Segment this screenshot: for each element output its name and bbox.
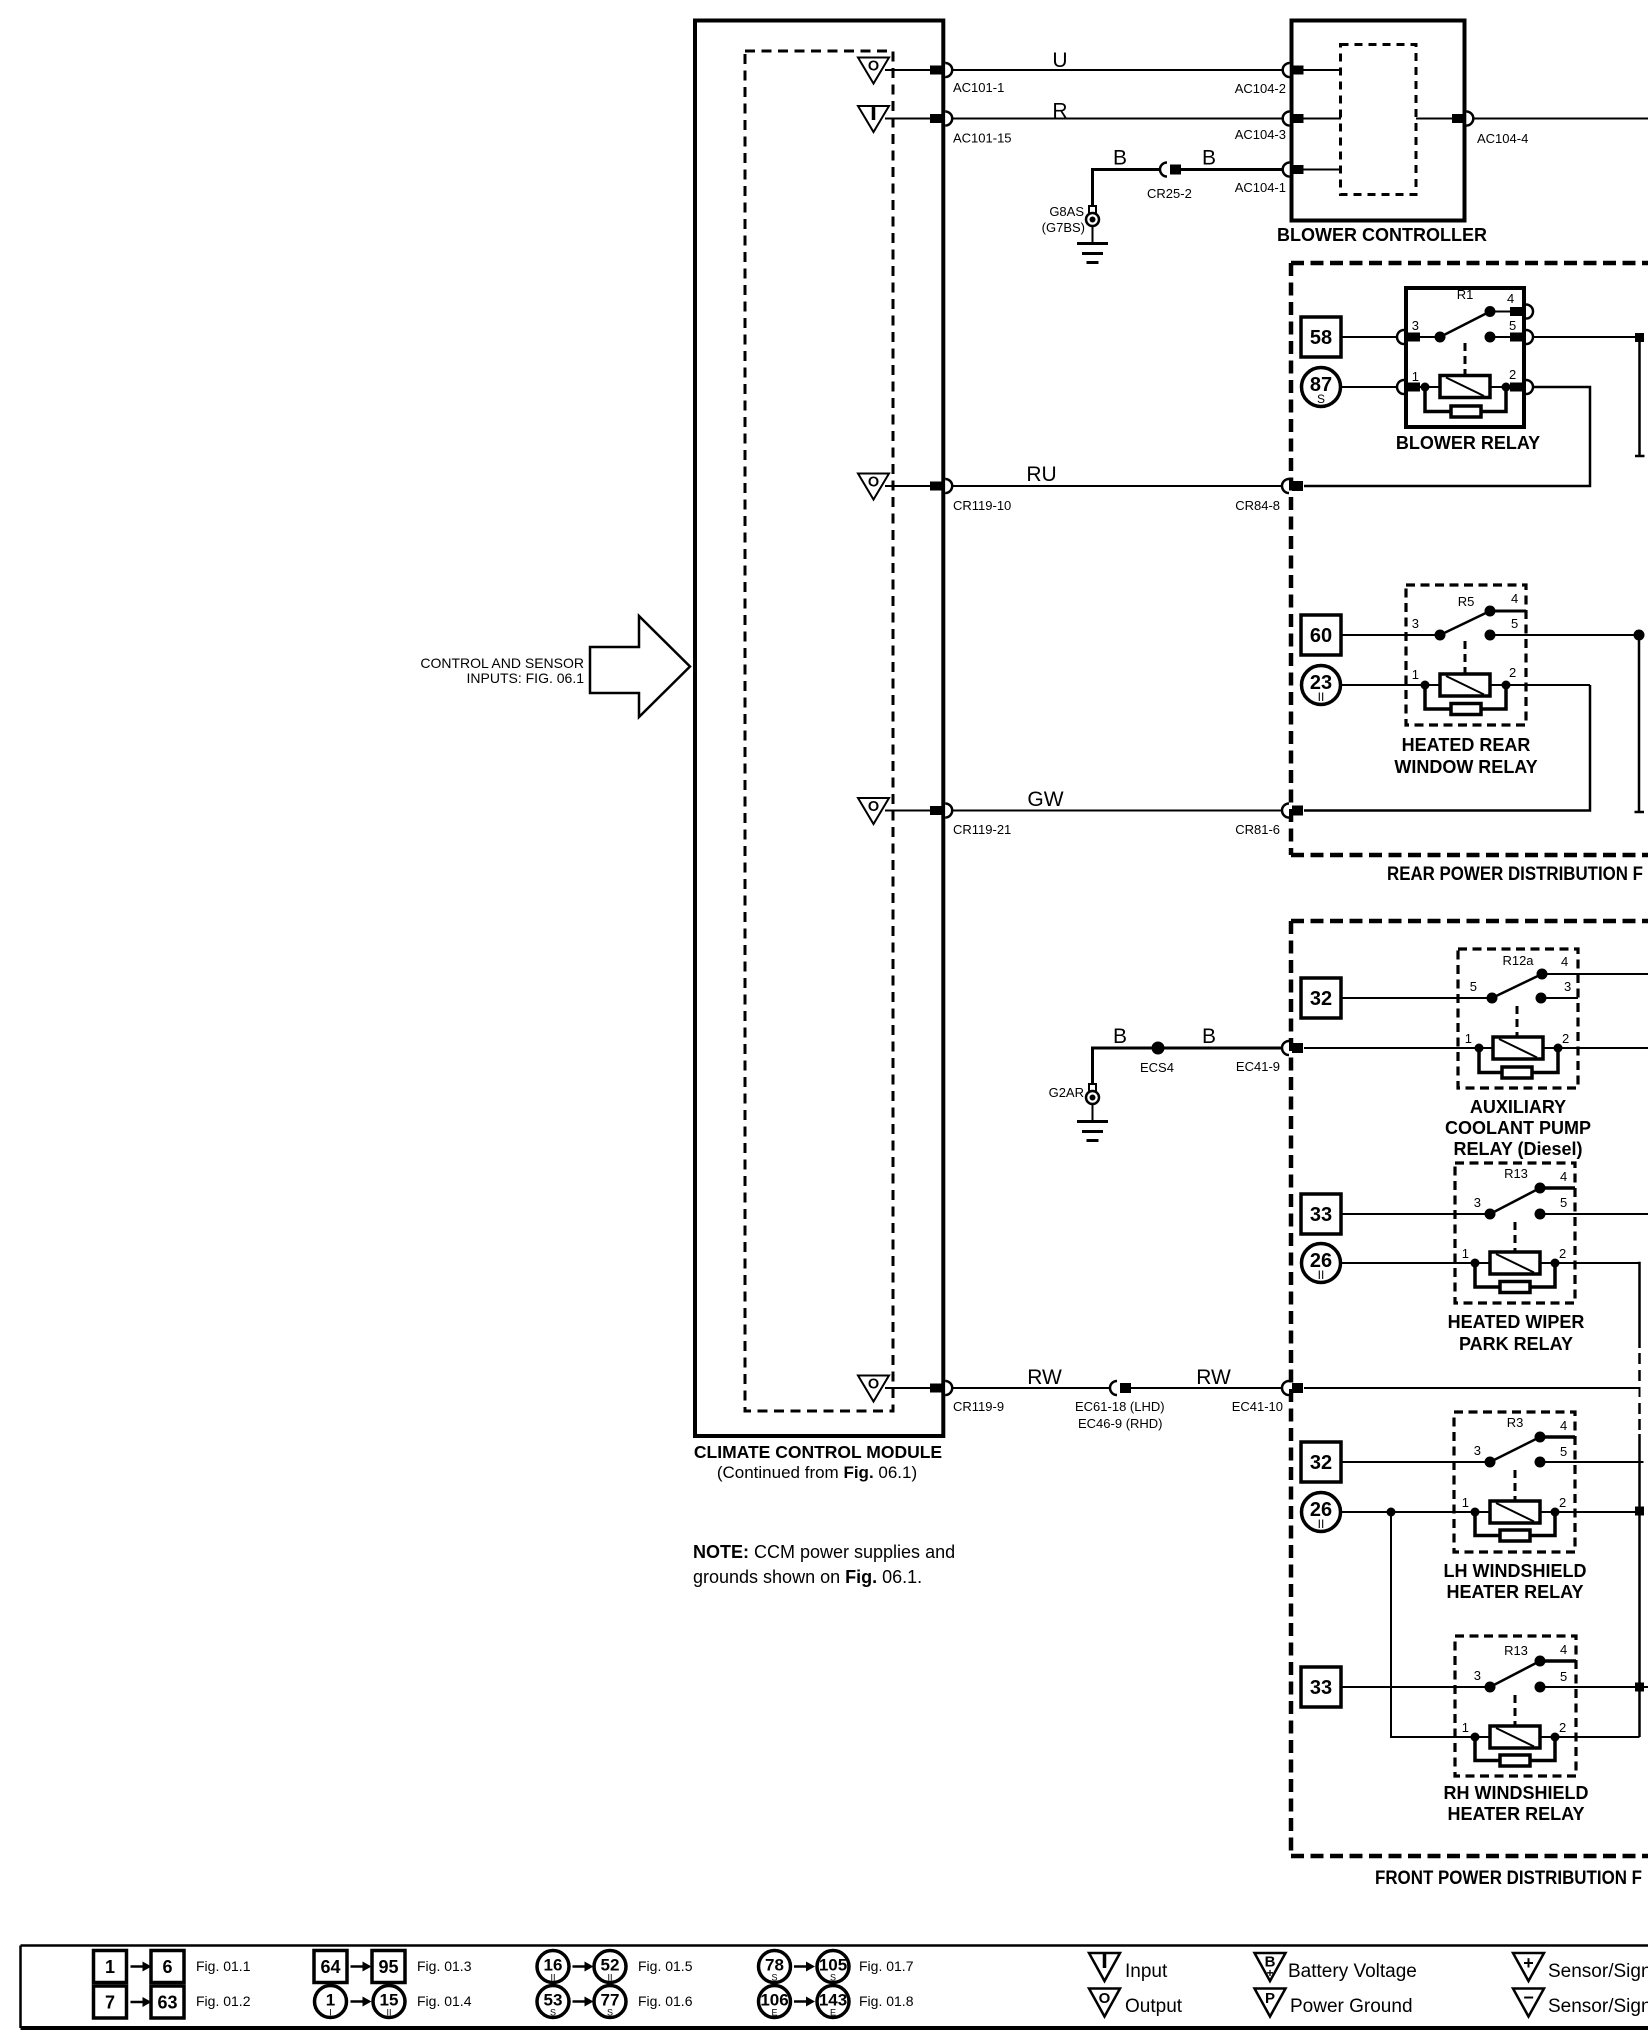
svg-text:3: 3 (1474, 1668, 1481, 1683)
relay R13 RH suppression resistor loop (1475, 1740, 1500, 1761)
relay R13 RH switch pivot (1485, 1682, 1496, 1693)
svg-text:RELAY (Diesel): RELAY (Diesel) (1453, 1139, 1582, 1159)
svg-text:RU: RU (1026, 463, 1056, 486)
svg-text:COOLANT PUMP: COOLANT PUMP (1445, 1118, 1591, 1138)
relay R13 RH switch blade (1490, 1661, 1540, 1687)
splice dot on 26 wire (1387, 1508, 1396, 1517)
wire GW (CR119-21 to CR81-6) (952, 810, 1282, 812)
relay R1 switch blade (1440, 312, 1490, 338)
connector CR119-9 bump (945, 1381, 952, 1395)
svg-text:2: 2 (1509, 367, 1516, 382)
svg-text:AC104-1: AC104-1 (1235, 180, 1286, 195)
relay R1 pin5 wire (1495, 336, 1512, 338)
wire splice 26 down to RH coil (1391, 1512, 1490, 1737)
wire fuse 33 to relay R13 RH pin3 (1341, 1686, 1488, 1688)
bus dashed section (1638, 1353, 1641, 1364)
relay R12a coil (1493, 1037, 1543, 1059)
svg-text:2: 2 (1559, 1495, 1566, 1510)
wire AC104-3 internal (1303, 118, 1341, 120)
svg-text:Power Ground: Power Ground (1290, 1996, 1413, 2017)
wire CR119-21 to CCM edge (885, 810, 931, 812)
svg-text:R13: R13 (1504, 1643, 1528, 1658)
relay R1 blower relay box (1406, 288, 1524, 427)
relay R3 pin5 dot (1535, 1457, 1546, 1468)
svg-text:3: 3 (1412, 616, 1419, 631)
terminal end tick R1 (1635, 455, 1645, 458)
svg-text:BLOWER RELAY: BLOWER RELAY (1396, 433, 1540, 453)
svg-text:U: U (1052, 49, 1067, 72)
relay R12a switch blade (1492, 974, 1542, 998)
svg-text:CR81-6: CR81-6 (1235, 822, 1280, 837)
svg-text:CONTROL AND SENSOR: CONTROL AND SENSOR (420, 655, 584, 671)
relay R5 pin5 wire (1495, 634, 1639, 636)
relay R1 switch throw dot pin4 (1485, 306, 1496, 317)
svg-text:R5: R5 (1458, 594, 1475, 609)
svg-text:Fig. 01.6: Fig. 01.6 (638, 1993, 693, 2009)
svg-text:4: 4 (1560, 1642, 1567, 1657)
relay R1 pin1 junction (1421, 383, 1430, 392)
relay R13 RH coil to pin2 wire (1540, 1736, 1640, 1738)
relay R5 suppression resistor loop (1425, 688, 1451, 709)
svg-text:B: B (1202, 1025, 1216, 1048)
svg-text:4: 4 (1560, 1418, 1567, 1433)
svg-text:NOTE: CCM power supplies and: NOTE: CCM power supplies and (693, 1542, 955, 1562)
relay R13 wiper coil dashed stub (1514, 1222, 1517, 1251)
relay R13 wiper switch pivot (1485, 1209, 1496, 1220)
connector EC41-10 (1282, 1381, 1289, 1395)
wire RU (CR119-10 to CR84-8) (952, 485, 1282, 487)
relay R12a coil dashed stub (1516, 1006, 1519, 1036)
relay R1 switch pivot (1435, 332, 1446, 343)
svg-text:AC104-2: AC104-2 (1235, 81, 1286, 96)
relay R5 pin4 wire (1490, 610, 1526, 613)
relay R1 coil dashed stub (1464, 343, 1467, 374)
fuse 33 box RH windshield (1301, 1667, 1341, 1707)
wire B from ECS4 to EC41-9 (1164, 1047, 1282, 1050)
wire B from G2AR corner to ECS4 (1093, 1048, 1153, 1084)
legend input symbol (1089, 1953, 1120, 1981)
output symbol O at CR119-10 (858, 474, 889, 500)
relay R13 wiper switch blade (1490, 1188, 1540, 1214)
wire AC104-4 external (1474, 118, 1648, 120)
svg-text:5: 5 (1511, 616, 1518, 631)
wire circle 26 to relay R13 coil (1341, 1262, 1490, 1264)
svg-text:Fig. 01.2: Fig. 01.2 (196, 1993, 251, 2009)
relay R5 pin5 dot (1485, 630, 1496, 641)
svg-text:3: 3 (1474, 1443, 1481, 1458)
svg-text:Fig. 01.5: Fig. 01.5 (638, 1958, 693, 1974)
svg-text:Fig. 01.7: Fig. 01.7 (859, 1958, 914, 1974)
svg-text:INPUTS: FIG. 06.1: INPUTS: FIG. 06.1 (467, 670, 585, 686)
wire fuse 58 to relay R1 pin3 (1341, 336, 1406, 338)
wire RW inside front PDB (1304, 1388, 1640, 1397)
svg-text:1: 1 (1462, 1720, 1469, 1735)
legend circles 53 to 77 Fig 01.6 (537, 1986, 569, 2018)
wire R5 pin2 return to CR81-6 (1304, 685, 1590, 811)
relay R12a suppression resistor loop (1479, 1051, 1502, 1073)
connector CR119-10 bump (945, 479, 952, 493)
svg-text:3: 3 (1412, 318, 1419, 333)
wire RW (EC61-18 to EC41-10) (1130, 1387, 1282, 1389)
connector circle 26 II LH windshield (1302, 1493, 1341, 1532)
legend output symbol (1089, 1989, 1120, 2017)
wire circle 87 to relay R1 pin1 (1341, 386, 1406, 388)
svg-text:AC104-4: AC104-4 (1477, 131, 1528, 146)
relay R1 pin4 wire (1490, 311, 1512, 313)
splice CR25-2 (1160, 163, 1167, 177)
relay R12a switch pivot pin5 (1487, 993, 1498, 1004)
relay R13 wiper pin2 junction (1551, 1259, 1560, 1268)
svg-text:HEATER RELAY: HEATER RELAY (1447, 1804, 1584, 1824)
wire AC101-15 to CCM edge (885, 118, 931, 120)
relay R1 suppression resistor loop (1425, 390, 1451, 412)
connector EC41-9 (1282, 1041, 1289, 1055)
svg-text:II: II (1318, 1517, 1325, 1531)
legend squares 1 to 6 Fig 01.1 (94, 1951, 127, 1983)
svg-text:Battery Voltage: Battery Voltage (1288, 1961, 1417, 1982)
svg-text:HEATED REAR: HEATED REAR (1402, 735, 1531, 755)
ground G8AS (1089, 206, 1096, 214)
relay R12a pin4 wire (1542, 973, 1648, 975)
svg-text:AC101-15: AC101-15 (953, 131, 1012, 146)
wire R (AC101-15 to AC104-3) (952, 118, 1283, 120)
svg-text:4: 4 (1561, 954, 1568, 969)
relay R13 RH pin5 wire (1545, 1686, 1648, 1688)
svg-text:4: 4 (1511, 591, 1518, 606)
svg-text:Sensor/Signal: Sensor/Signal (1548, 1996, 1648, 2017)
svg-text:Fig. 01.1: Fig. 01.1 (196, 1958, 251, 1974)
relay R3 switch blade (1490, 1437, 1540, 1462)
svg-text:LH WINDSHIELD: LH WINDSHIELD (1444, 1561, 1587, 1581)
legend power ground symbol (1255, 1989, 1286, 2017)
relay R5 pin1 junction (1421, 681, 1430, 690)
svg-text:CR84-8: CR84-8 (1235, 498, 1280, 513)
svg-text:AC104-3: AC104-3 (1235, 127, 1286, 142)
relay R1 coil (1440, 376, 1490, 398)
svg-text:B: B (1113, 147, 1127, 170)
wire R1 pin2 return to CR84-8 (1304, 387, 1590, 486)
wire AC104-4 internal (1416, 118, 1453, 120)
wire RW (CR119-9 to EC61-18) (952, 1387, 1111, 1389)
wire fuse 32 to relay R3 pin3 (1341, 1461, 1488, 1463)
relay R13 heated wiper park relay box (1455, 1163, 1575, 1303)
wire CR119-10 to CCM edge (885, 485, 931, 487)
arrow control and sensor inputs (590, 616, 690, 717)
connector CR84-8 (1282, 479, 1289, 493)
svg-text:Fig. 01.8: Fig. 01.8 (859, 1993, 914, 2009)
legend squares 7 to 63 Fig 01.2 (94, 1986, 127, 2018)
svg-text:2: 2 (1559, 1246, 1566, 1261)
relay R5 coil (1440, 674, 1490, 696)
wire B from CR25-2 to AC104-1 (1180, 168, 1283, 171)
svg-text:RW: RW (1027, 1366, 1062, 1389)
relay R3 switch pivot (1485, 1457, 1496, 1468)
svg-text:7: 7 (105, 1993, 115, 2013)
svg-text:CR25-2: CR25-2 (1147, 186, 1192, 201)
svg-text:O: O (1099, 1990, 1111, 2007)
relay R3 pin5 wire (1545, 1461, 1644, 1463)
relay R13 wiper coil to pin2 wire (1540, 1262, 1638, 1264)
fuse 33 box heated wiper (1301, 1194, 1341, 1234)
svg-text:REAR POWER DISTRIBUTION F: REAR POWER DISTRIBUTION F (1387, 864, 1643, 885)
connector circle 23 II (1302, 666, 1341, 705)
svg-text:G8AS: G8AS (1049, 204, 1084, 219)
svg-text:EC46-9 (RHD): EC46-9 (RHD) (1078, 1416, 1163, 1431)
svg-text:S: S (550, 2008, 556, 2018)
svg-text:S: S (771, 1973, 777, 1983)
legend bar frame (21, 1944, 1648, 1947)
svg-text:AC101-1: AC101-1 (953, 80, 1004, 95)
svg-text:63: 63 (157, 1993, 177, 2013)
svg-text:3: 3 (1474, 1195, 1481, 1210)
legend battery voltage symbol (1255, 1953, 1286, 1981)
wire R5 pin5 branch vertical (1638, 635, 1641, 812)
wire U (AC101-1 to AC104-2) (952, 69, 1283, 71)
svg-text:P: P (1265, 1990, 1275, 2007)
svg-text:FRONT POWER DISTRIBUTION F: FRONT POWER DISTRIBUTION F (1375, 1868, 1642, 1889)
connector AC101-1 bump (945, 63, 952, 77)
wire AC104-2 internal (1303, 69, 1341, 71)
relay R12a pin3 dot (1536, 993, 1547, 1004)
relay R13 wiper coil (1490, 1252, 1540, 1274)
relay R1 pin3 wire to pivot (1419, 336, 1440, 338)
svg-text:3: 3 (1564, 979, 1571, 994)
svg-text:EC41-9: EC41-9 (1236, 1059, 1280, 1074)
output symbol O at AC101-1 (858, 58, 889, 84)
relay R1 pin5 dot (1485, 332, 1496, 343)
connector AC104-4 bump (1466, 112, 1473, 126)
wire EC41-9 to relay R12a coil (1304, 1047, 1493, 1049)
junction dot at R5 pin5 branch (1634, 630, 1645, 641)
svg-text:S: S (830, 1973, 836, 1983)
svg-text:HEATER RELAY: HEATER RELAY (1446, 1582, 1583, 1602)
fuse 32 box LH windshield (1301, 1442, 1341, 1482)
svg-text:1: 1 (1465, 1031, 1472, 1046)
relay R13 RH pin5 dot (1535, 1682, 1546, 1693)
svg-text:(Continued from Fig. 06.1): (Continued from Fig. 06.1) (717, 1463, 917, 1482)
svg-text:58: 58 (1310, 327, 1332, 349)
svg-text:1: 1 (1462, 1246, 1469, 1261)
output symbol O at CR119-21 (858, 798, 889, 824)
relay R3 coil dashed stub (1514, 1470, 1517, 1500)
relay R5 coil dashed stub (1464, 641, 1467, 673)
svg-text:5: 5 (1560, 1669, 1567, 1684)
svg-text:II: II (1318, 1268, 1325, 1282)
front power distribution box dashed border (1291, 919, 1648, 924)
relay R13 wiper suppression resistor loop (1475, 1266, 1500, 1287)
svg-text:2: 2 (1559, 1720, 1566, 1735)
svg-text:CLIMATE CONTROL MODULE: CLIMATE CONTROL MODULE (694, 1442, 942, 1462)
blower controller box (1292, 21, 1465, 221)
svg-text:EC41-10: EC41-10 (1232, 1399, 1283, 1414)
svg-text:4: 4 (1560, 1169, 1567, 1184)
connector AC104-1 bump (1283, 163, 1290, 177)
relay R1 pin4 bump (1526, 305, 1533, 319)
svg-text:60: 60 (1310, 625, 1332, 647)
relay R13 RH coil (1490, 1726, 1540, 1748)
relay R13 wiper pin5 wire (1545, 1213, 1648, 1215)
fuse 58 box (1301, 317, 1341, 357)
wire CR119-9 to CCM edge (885, 1387, 931, 1389)
svg-text:O: O (868, 475, 879, 491)
svg-text:1: 1 (1412, 369, 1419, 384)
svg-text:II: II (550, 1973, 555, 1983)
relay R3 suppression resistor loop (1475, 1515, 1500, 1536)
svg-text:E: E (830, 2008, 836, 2018)
relay R13 wiper switch throw dot pin4 (1535, 1183, 1546, 1194)
svg-text:II: II (1318, 690, 1325, 704)
svg-text:R: R (1052, 100, 1067, 123)
svg-text:1: 1 (105, 1957, 115, 1977)
relay R12a switch throw dot pin4 (1537, 969, 1548, 980)
svg-text:R1: R1 (1457, 287, 1474, 302)
svg-text:2: 2 (1509, 665, 1516, 680)
svg-text:Sensor/Signal: Sensor/Signal (1548, 1961, 1648, 1982)
relay R5 heated rear window relay box (1406, 585, 1526, 725)
svg-text:O: O (868, 1377, 879, 1393)
svg-text:+: + (1523, 1953, 1534, 1973)
relay R13 RH pin1 junction (1471, 1733, 1480, 1742)
svg-text:RH WINDSHIELD: RH WINDSHIELD (1444, 1783, 1589, 1803)
svg-text:ECS4: ECS4 (1140, 1060, 1174, 1075)
svg-text:S: S (1317, 392, 1325, 406)
svg-text:64: 64 (320, 1957, 340, 1977)
input symbol I at AC101-15 (858, 106, 889, 132)
terminal end tick R5 (1635, 811, 1645, 814)
splice ECS4 dot (1152, 1042, 1165, 1055)
svg-text:G2AR: G2AR (1049, 1085, 1084, 1100)
relay R5 switch throw dot pin4 (1485, 606, 1496, 617)
svg-text:2: 2 (1562, 1031, 1569, 1046)
climate control module CCM box (695, 21, 943, 1437)
svg-text:95: 95 (378, 1957, 398, 1977)
wire circle 26 to relay R3 coil (1341, 1511, 1490, 1513)
svg-text:O: O (868, 59, 879, 75)
fuse 60 box (1301, 615, 1341, 655)
relay R13 RH coil dashed stub (1514, 1695, 1517, 1725)
relay R1 pin1 bump (1397, 380, 1404, 394)
svg-text:CR119-10: CR119-10 (953, 498, 1011, 513)
relay R5 coil to pin2 wire (1490, 684, 1590, 686)
svg-text:33: 33 (1310, 1677, 1332, 1699)
relay R12a pin1 junction (1475, 1044, 1484, 1053)
svg-text:5: 5 (1560, 1195, 1567, 1210)
svg-text:B: B (1202, 147, 1216, 170)
relay R13 wiper pin5 dot (1535, 1209, 1546, 1220)
relay R1 pin2 bump (1526, 380, 1533, 394)
splice EC61-18 (1110, 1381, 1117, 1395)
svg-text:II: II (386, 2008, 391, 2018)
wire R1 pin5 to terminal (1534, 336, 1640, 338)
relay R3 pin2 junction (1551, 1508, 1560, 1517)
connector AC104-3 bump (1283, 112, 1290, 126)
wire fuse 32 to relay R12a pin5 (1341, 997, 1490, 999)
relay R13 RH windshield heater relay box (1455, 1636, 1576, 1776)
relay R1 pin3 bump (1397, 330, 1404, 344)
legend sensor signal plus symbol (1513, 1953, 1544, 1981)
svg-text:grounds shown on Fig. 06.1.: grounds shown on Fig. 06.1. (693, 1567, 922, 1587)
rear power distribution box dashed border (1291, 261, 1648, 266)
legend sensor signal minus symbol (1513, 1989, 1544, 2017)
wire B from G8AS to CR25-2 (1093, 170, 1160, 207)
svg-text:1: 1 (1412, 667, 1419, 682)
legend circles 78 to 105 Fig 01.7 (759, 1951, 791, 1983)
wire AC104-1 internal (1303, 169, 1341, 171)
svg-text:B: B (1113, 1025, 1127, 1048)
legend squares 64 to 95 Fig 01.3 (314, 1951, 347, 1983)
svg-text:EC61-18 (LHD): EC61-18 (LHD) (1075, 1399, 1165, 1414)
relay R1 pin2 junction (1502, 383, 1511, 392)
relay R1 coil to pin2 wire (1490, 386, 1512, 388)
svg-text:6: 6 (162, 1957, 172, 1977)
svg-text:32: 32 (1310, 1452, 1332, 1474)
connector AC101-15 bump (945, 112, 952, 126)
ground G2AR (1089, 1084, 1096, 1092)
svg-text:5: 5 (1470, 979, 1477, 994)
svg-text:Fig. 01.3: Fig. 01.3 (417, 1958, 472, 1974)
relay R13 RH pin2 junction (1551, 1733, 1560, 1742)
svg-text:S: S (607, 2008, 613, 2018)
relay R1 pin1 wire to coil (1419, 386, 1440, 388)
svg-text:II: II (607, 1973, 612, 1983)
wire fuse 33 to relay R13 pin3 (1341, 1213, 1488, 1215)
svg-text:PARK RELAY: PARK RELAY (1459, 1334, 1573, 1354)
connector AC104-2 bump (1283, 63, 1290, 77)
relay R3 pin4 wire (1540, 1435, 1575, 1439)
legend circles 106 to 143 Fig 01.8 (759, 1986, 791, 2018)
svg-text:R13: R13 (1504, 1166, 1528, 1181)
wire R1 pin5 terminal vertical (1638, 342, 1641, 456)
junction square at R1 pin5 corner (1635, 333, 1644, 342)
svg-text:Output: Output (1125, 1996, 1183, 2017)
connector circle 87 S (1302, 368, 1341, 407)
relay R5 switch pivot (1435, 630, 1446, 641)
svg-text:−: − (1523, 1988, 1534, 2008)
connector CR81-6 (1282, 804, 1289, 818)
connector CR119-21 bump (945, 804, 952, 818)
svg-text:CR119-9: CR119-9 (953, 1399, 1004, 1414)
svg-text:4: 4 (1507, 291, 1514, 306)
relay R12a pin3 wire (1546, 997, 1578, 999)
wire R13 wiper pin2 corner down (1638, 1263, 1640, 1348)
svg-text:I: I (329, 2008, 332, 2018)
svg-text:R3: R3 (1507, 1415, 1524, 1430)
svg-text:O: O (868, 799, 879, 815)
svg-text:Input: Input (1125, 1961, 1168, 1982)
svg-text:R12a: R12a (1502, 953, 1534, 968)
relay R5 pin2 junction (1502, 681, 1511, 690)
svg-text:WINDOW RELAY: WINDOW RELAY (1394, 757, 1537, 777)
legend circles 1 to 15 Fig 01.4 (315, 1986, 347, 2018)
svg-text:BLOWER CONTROLLER: BLOWER CONTROLLER (1277, 225, 1487, 245)
bus solid section lower (1638, 1434, 1641, 1737)
svg-text:CR119-21: CR119-21 (953, 822, 1011, 837)
wire circle 23 to relay R5 pin1 (1341, 684, 1440, 686)
svg-text:5: 5 (1560, 1444, 1567, 1459)
svg-text:E: E (771, 2008, 777, 2018)
relay R12a pin2 junction (1554, 1044, 1563, 1053)
relay R3 pin1 junction (1471, 1508, 1480, 1517)
relay R13 RH switch throw dot pin4 (1535, 1656, 1546, 1667)
svg-text:GW: GW (1027, 788, 1063, 811)
relay R3 LH windshield heater relay box (1454, 1412, 1575, 1552)
relay R5 switch blade (1440, 611, 1490, 635)
relay R1 pin5 bump (1526, 330, 1533, 344)
svg-text:32: 32 (1310, 988, 1332, 1010)
wire AC101-1 to CCM edge (885, 69, 931, 71)
relay R13 wiper pin1 junction (1471, 1259, 1480, 1268)
climate control module inner dashed boundary (745, 51, 893, 1411)
